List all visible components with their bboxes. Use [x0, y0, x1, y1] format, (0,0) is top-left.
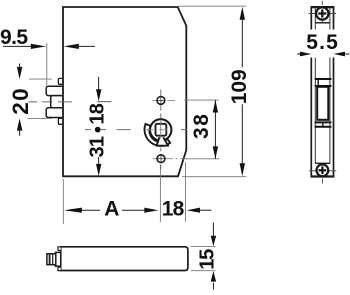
bottom pocket line: [315, 162, 330, 164]
follower outer circle: [150, 119, 171, 140]
extension line right edge: [185, 162, 187, 222]
svg-text:5.5: 5.5: [306, 31, 338, 54]
extension line follower axis: [159, 165, 161, 223]
lock body side view: [61, 247, 188, 271]
dimension 18 bottom: [162, 198, 212, 221]
centerline follower vertical: [160, 90, 162, 170]
dimension 15: [212, 223, 214, 238]
left edge ears: [58, 247, 61, 251]
dimension 38: [190, 100, 218, 159]
tick lever centerline: [97, 101, 111, 103]
extension line 9.5 at lever axis: [46, 43, 48, 86]
dimension 9.5: [0, 26, 95, 49]
dimension A: [64, 198, 158, 221]
follower cam ring segment: [145, 124, 171, 146]
faceplate inner lines: [314, 7, 316, 163]
lock case outline: [63, 7, 186, 176]
centerline lever horizontal: [29, 101, 73, 103]
svg-text:31: 31: [86, 136, 108, 158]
svg-text:109: 109: [228, 69, 251, 104]
extension lines 15: [191, 246, 216, 248]
extension line 38 upper: [184, 99, 219, 101]
top screw: [309, 13, 336, 15]
extension lines 20: [29, 78, 52, 80]
extension line 109 top: [178, 5, 246, 7]
upper screw hole: [153, 97, 176, 105]
svg-text:9.5: 9.5: [0, 26, 28, 49]
extension line 109 bottom: [182, 176, 246, 178]
extension line 38 lower: [186, 158, 220, 160]
bottom screw: [309, 170, 336, 172]
svg-text:38: 38: [190, 114, 213, 139]
svg-text:18: 18: [86, 103, 108, 125]
dimension chain 31 / 18: [86, 77, 111, 176]
follower square hole: [156, 124, 167, 136]
dimension 109: [228, 7, 251, 176]
latch lower band: [315, 121, 332, 123]
chain dot: [95, 127, 101, 133]
dimension 20: [8, 64, 33, 136]
centerline follower horizontal: [85, 129, 187, 131]
svg-text:20: 20: [8, 88, 33, 115]
top pocket line: [315, 22, 330, 24]
spindle nub: [55, 252, 60, 266]
follower crosshair inside: [145, 129, 171, 131]
plate edge tab upper: [58, 78, 62, 84]
follower spindle spool bottom flange: [46, 108, 62, 118]
svg-text:15: 15: [197, 249, 219, 270]
follower spindle spool waist: [51, 96, 62, 108]
svg-text:18: 18: [162, 198, 185, 221]
lower screw hole: [153, 155, 188, 163]
latch upper band: [315, 78, 332, 80]
follower spindle spool top flange: [46, 86, 62, 95]
latch bolt: [317, 87, 328, 120]
faceplate outer: [311, 7, 333, 176]
mask for 5.5 label: [302, 30, 342, 58]
svg-text:A: A: [104, 198, 119, 221]
plate edge tab lower: [58, 118, 62, 124]
follower nose: [157, 137, 169, 146]
extension line A left: [62, 179, 64, 224]
